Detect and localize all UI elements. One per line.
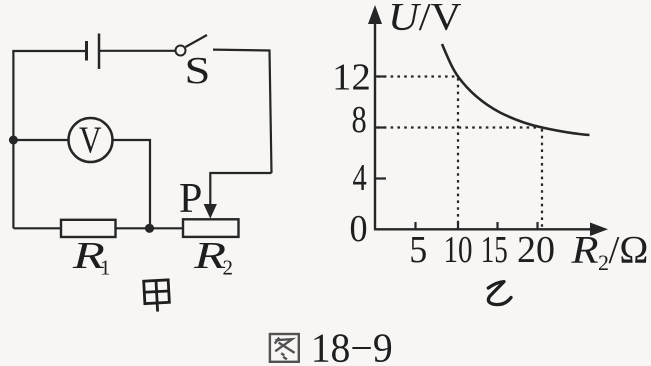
x-axis R2 [374, 228, 592, 230]
x tick at 10 [457, 222, 459, 229]
battery B (long plate = positive) [98, 34, 101, 70]
svg-text:V: V [79, 120, 102, 162]
resistor R2 box (rheostat) [183, 219, 239, 237]
battery B (short plate = negative) [85, 41, 88, 61]
svg-text:4: 4 [353, 157, 367, 199]
wire: bottom left to R1 [13, 227, 61, 229]
label jia (CJK U+7532, hand-drawn glyph) [144, 280, 170, 312]
junction dot (left, voltmeter tap) [9, 136, 18, 145]
svg-text:S: S [185, 50, 211, 92]
dotted guide from U=8 to curve [377, 126, 543, 128]
junction dot (between R1 and R2) [145, 224, 154, 233]
wire: jog from right wire to slider stem [210, 173, 271, 206]
y-axis U/V [374, 20, 376, 229]
wire: switch to top-right corner and down [213, 50, 272, 173]
slider arrowhead P onto R2 [204, 204, 217, 219]
svg-text:R: R [570, 229, 598, 272]
svg-text:18−9: 18−9 [311, 325, 393, 366]
y tick at 8 [375, 126, 386, 128]
x tick at 5 [414, 222, 416, 229]
svg-text:P: P [179, 176, 202, 222]
svg-text:U/V: U/V [388, 0, 462, 39]
wire: battery to switch [100, 50, 176, 52]
svg-text:/Ω: /Ω [609, 229, 649, 272]
switch S lever [186, 35, 208, 47]
wire: left vertical (battery- to R1 branch) [12, 51, 14, 228]
svg-text:10: 10 [444, 229, 473, 271]
svg-text:0: 0 [350, 208, 368, 250]
dotted guide down from (10,12) [457, 78, 459, 228]
voltmeter U (V) circle [69, 118, 113, 162]
y tick at 4 [375, 177, 386, 179]
svg-text:R: R [193, 235, 226, 277]
label yi (CJK U+4E59, hand-drawn glyph) [488, 282, 511, 305]
wire: top left horizontal to battery [12, 50, 86, 52]
svg-text:5: 5 [409, 229, 427, 271]
svg-text:12: 12 [332, 57, 371, 99]
y tick at 12 [375, 75, 386, 77]
svg-text:2: 2 [223, 256, 234, 280]
resistor R1 box [61, 220, 116, 237]
svg-text:2: 2 [598, 250, 609, 275]
svg-text:1: 1 [100, 256, 111, 280]
caption glyph tu (CJK U+56FE, hand-drawn) [270, 334, 299, 362]
wire: voltmeter right lead down to junction [113, 140, 151, 228]
dotted guide from U=12 to curve [377, 75, 459, 77]
x tick at 20 [536, 222, 538, 229]
svg-text:20: 20 [517, 229, 555, 271]
dotted guide down from (20,8) [541, 129, 543, 228]
x-axis arrowhead [590, 223, 608, 237]
wire: voltmeter left lead [13, 139, 68, 141]
switch S contact circle [176, 46, 186, 56]
svg-text:15: 15 [481, 229, 508, 271]
y-axis arrowhead [368, 5, 382, 24]
x tick at 15 [496, 222, 498, 229]
svg-text:8: 8 [352, 99, 367, 141]
wire: R1 to R2 through junction [116, 227, 184, 229]
curve U vs R2 [442, 44, 590, 135]
